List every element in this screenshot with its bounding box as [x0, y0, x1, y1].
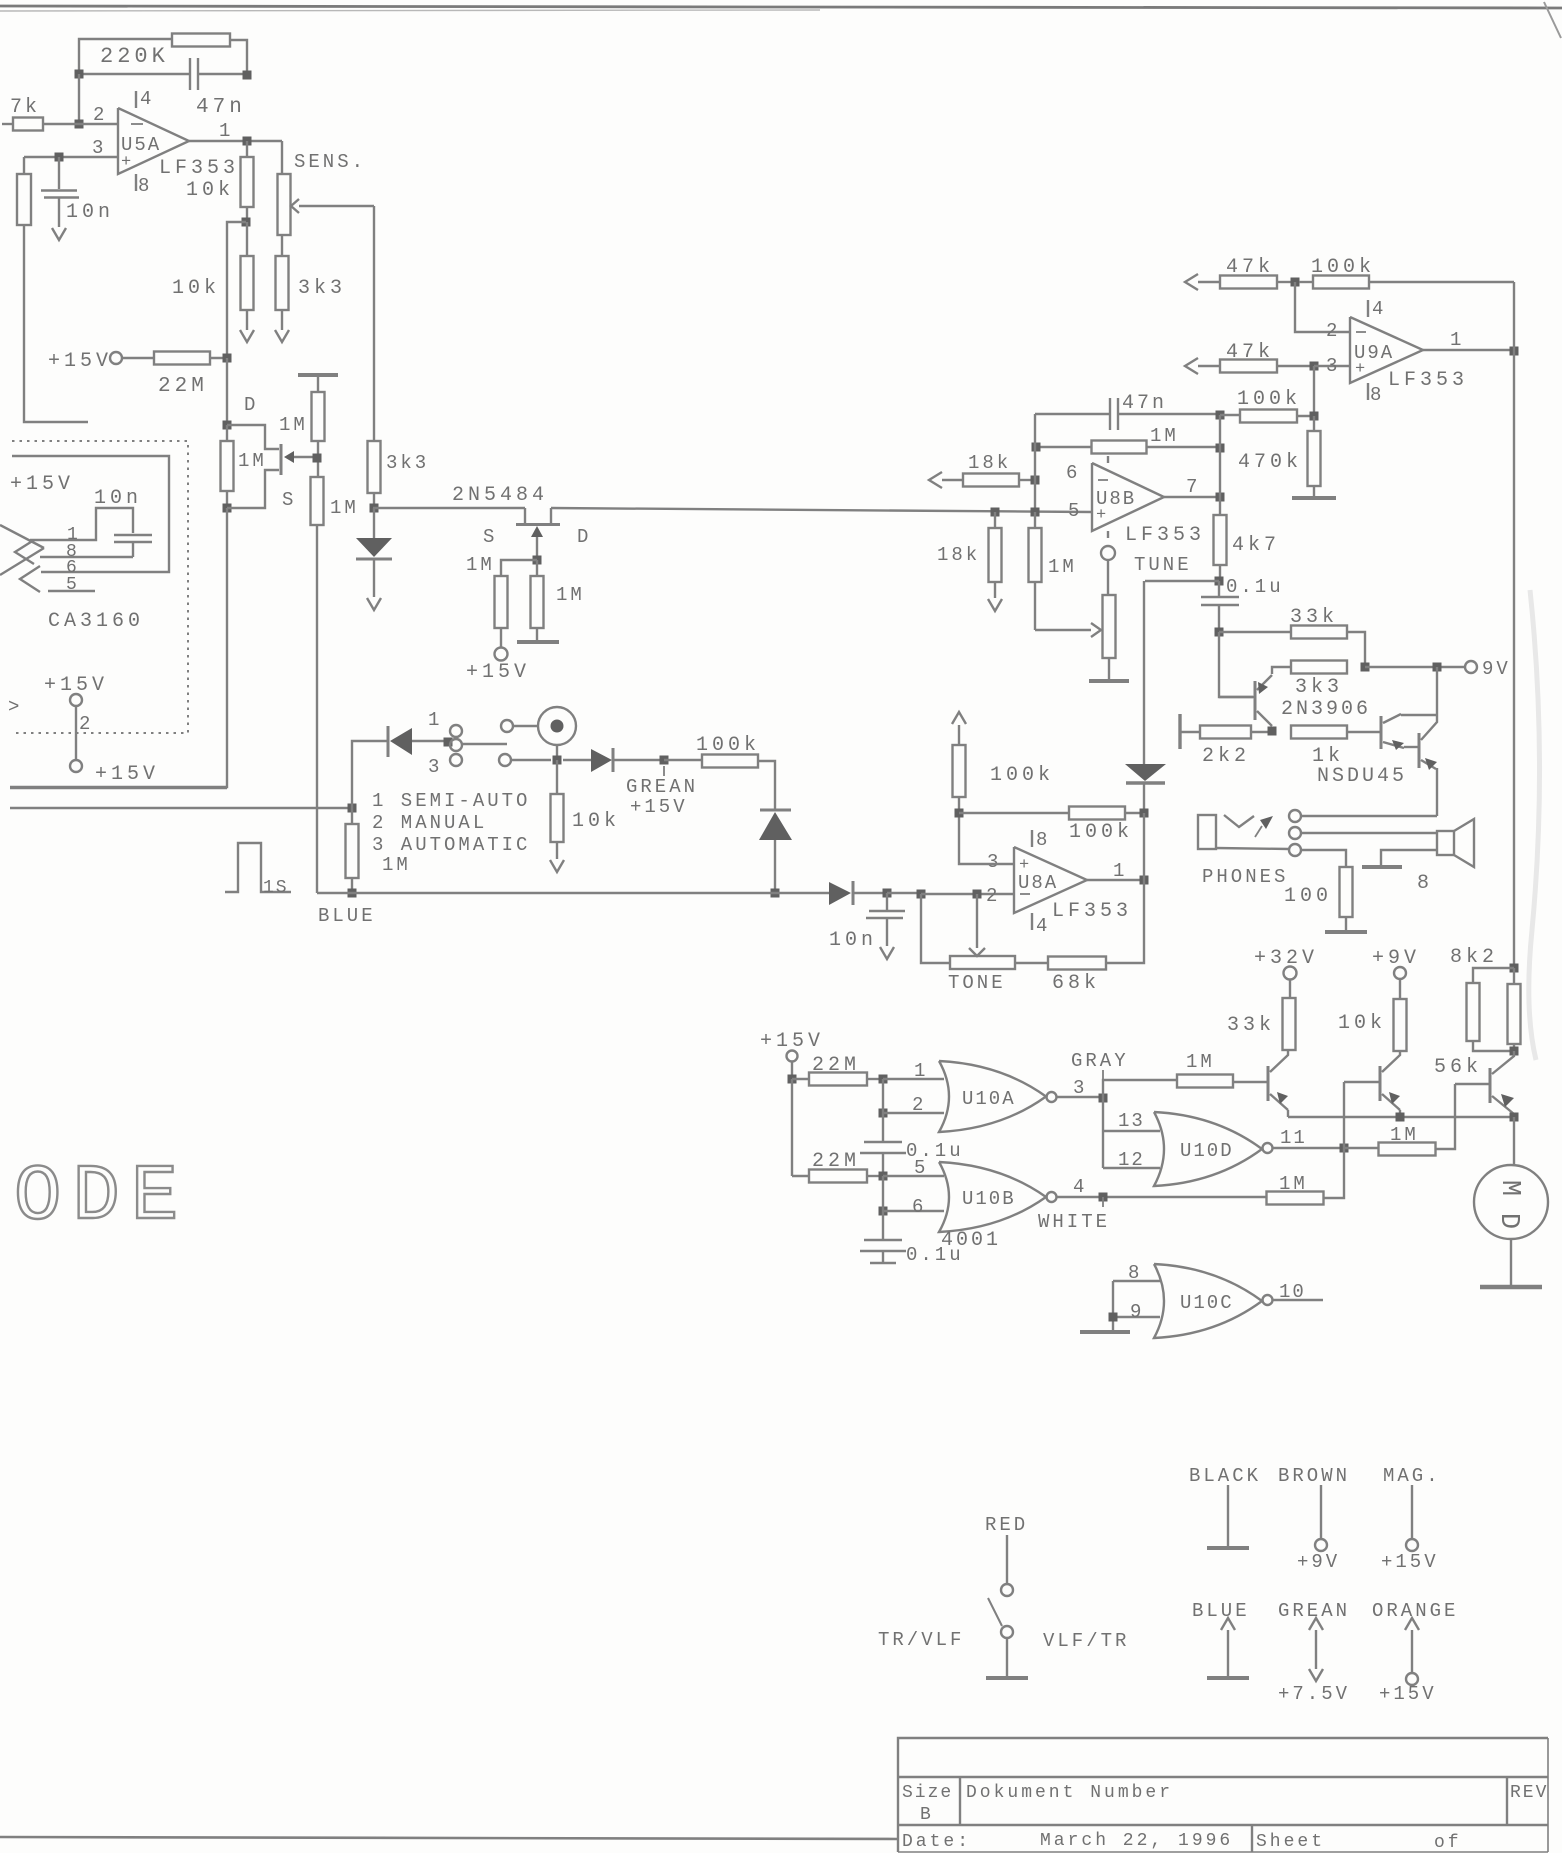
- op-amp U8A: [1014, 847, 1087, 913]
- node diode bus: [771, 889, 780, 898]
- svg-text:BLUE: BLUE: [318, 905, 376, 927]
- pin stub U8B top: [1107, 456, 1109, 463]
- wire left input down: [24, 225, 88, 422]
- wire switch feed: [10, 807, 352, 809]
- resistor 3k3 emitter: [1291, 661, 1347, 674]
- bar 2k2 input: [1178, 714, 1181, 749]
- svg-text:68k: 68k: [1052, 972, 1100, 995]
- node diode out: [1140, 809, 1149, 818]
- svg-text:1M: 1M: [279, 414, 308, 436]
- node 2N3906 collector: [1268, 727, 1277, 736]
- svg-text:March 22, 1996: March 22, 1996: [1040, 1831, 1233, 1851]
- resistor 100k U9A feedback: [1313, 276, 1369, 289]
- svg-text:1M: 1M: [466, 554, 495, 576]
- node grean: [660, 756, 669, 765]
- top right corner mark: [1544, 2, 1561, 38]
- svg-text:3 AUTOMATIC: 3 AUTOMATIC: [372, 834, 530, 856]
- node 22M: [223, 354, 232, 363]
- resistor 1M white: [1265, 1196, 1267, 1198]
- resistor 10k lower: [246, 222, 248, 256]
- wire U8A output: [1087, 879, 1144, 881]
- node pin2: [879, 1109, 888, 1118]
- switch contact 1: [450, 725, 462, 737]
- ground bar meter: [1480, 1285, 1542, 1290]
- wire 9V rail: [1365, 666, 1466, 668]
- svg-text:U10B: U10B: [962, 1188, 1016, 1210]
- resistor 470k: [1313, 416, 1315, 431]
- node 4k7 out: [1215, 577, 1224, 586]
- node drain: [223, 421, 232, 430]
- svg-text:2N3906: 2N3906: [1281, 698, 1371, 721]
- svg-text:+15V: +15V: [95, 763, 159, 786]
- svg-text:LF353: LF353: [1052, 900, 1132, 923]
- svg-text:CA3160: CA3160: [48, 610, 144, 633]
- resistor 47k bottom: [1198, 365, 1220, 367]
- terminal 9V: [1465, 661, 1477, 673]
- svg-text:3: 3: [428, 756, 439, 778]
- svg-text:1M: 1M: [382, 854, 411, 876]
- ground bar source: [517, 640, 559, 644]
- ground arrow 10n: [52, 228, 66, 240]
- node spine 8k2: [1510, 964, 1519, 973]
- wire U9A inverting: [1295, 282, 1350, 332]
- transistor NSDU45 first: [1380, 716, 1383, 749]
- svg-text:LF353: LF353: [1125, 524, 1205, 547]
- resistor 100k grean: [664, 759, 702, 761]
- speaker ground: [1381, 850, 1437, 866]
- resistor 47k top: [1198, 281, 1220, 283]
- jack PHONES body: [1198, 815, 1216, 849]
- resistor 2k2: [1180, 731, 1200, 733]
- solid box CA3160: [12, 456, 169, 572]
- wire pin3: [24, 156, 118, 158]
- wire tone left: [921, 894, 950, 963]
- resistor 1M gate lower: [311, 477, 324, 525]
- svg-text:Date:: Date:: [902, 1832, 971, 1852]
- gate U10D: [1154, 1112, 1262, 1186]
- svg-text:2: 2: [912, 1094, 923, 1116]
- wire U10D output: [1273, 1147, 1345, 1149]
- svg-text:9V: 9V: [1482, 658, 1511, 680]
- diode grean to bus: [760, 809, 791, 812]
- svg-text:1M: 1M: [556, 584, 585, 606]
- node pin1: [879, 1075, 888, 1084]
- wire right spine: [1513, 282, 1515, 351]
- speaker: [1437, 831, 1454, 855]
- svg-text:13: 13: [1118, 1110, 1145, 1132]
- wire blue bus: [317, 892, 775, 894]
- capacitor 10n bus: [886, 893, 888, 910]
- capacitor 10n input: [58, 157, 60, 189]
- wire SENS tap down: [373, 206, 375, 441]
- svg-text:12: 12: [1118, 1149, 1145, 1171]
- svg-text:1: 1: [914, 1060, 925, 1082]
- svg-text:D: D: [577, 526, 588, 548]
- gate U10B: [939, 1162, 1046, 1232]
- svg-text:100k: 100k: [1311, 256, 1375, 279]
- svg-text:1M: 1M: [1186, 1051, 1215, 1073]
- svg-text:SENS.: SENS.: [294, 151, 366, 173]
- TUNE wiper: [1035, 629, 1091, 631]
- ground arrow osc diode: [367, 598, 381, 610]
- wire U10C inputs: [1113, 1280, 1160, 1282]
- svg-text:2: 2: [79, 713, 90, 735]
- svg-text:2k2: 2k2: [1202, 745, 1250, 768]
- svg-text:+: +: [121, 153, 131, 172]
- node switch feed: [348, 804, 357, 813]
- svg-text:8k2: 8k2: [1450, 946, 1498, 969]
- svg-text:3k3: 3k3: [1295, 676, 1343, 699]
- svg-text:1 SEMI-AUTO: 1 SEMI-AUTO: [372, 790, 530, 812]
- svg-text:1S: 1S: [263, 878, 289, 898]
- transistor Q white: [1379, 1066, 1382, 1101]
- svg-text:1M: 1M: [1150, 425, 1179, 447]
- svg-text:8: 8: [1417, 872, 1429, 895]
- svg-text:4: 4: [1073, 1176, 1084, 1198]
- svg-text:22M: 22M: [812, 1054, 860, 1077]
- op-amp U9A: [1350, 317, 1423, 383]
- node U8A plus: [955, 809, 964, 818]
- svg-text:8: 8: [1128, 1262, 1139, 1284]
- ground bar U10C: [1080, 1330, 1130, 1334]
- svg-text:of: of: [1434, 1833, 1462, 1853]
- terminal +15V supply: [110, 352, 122, 364]
- svg-text:1: 1: [1450, 329, 1461, 351]
- scan crease right: [1529, 590, 1540, 1060]
- wire pin2: [883, 1112, 944, 1114]
- svg-text:470k: 470k: [1238, 451, 1302, 474]
- wire pin5: [883, 1175, 944, 1177]
- node 1M left: [1032, 443, 1041, 452]
- node pin6: [1031, 476, 1040, 485]
- node 33k: [1215, 628, 1224, 637]
- terminal TUNE: [1101, 546, 1115, 560]
- op-amp CA3160 partial: [0, 525, 44, 548]
- node 22M top: [788, 1075, 797, 1084]
- wire U8B left vertical: [1034, 414, 1036, 512]
- resistor 3k3 oscillator: [368, 441, 381, 493]
- wire ring to speaker: [1301, 832, 1437, 834]
- wire cap 47n left: [79, 73, 190, 75]
- svg-text:WHITE: WHITE: [1038, 1211, 1110, 1233]
- arrow signal 47k top: [1185, 274, 1198, 290]
- svg-text:8: 8: [138, 175, 149, 197]
- pin 8 stub U5A: [135, 174, 137, 191]
- svg-text:0.1u: 0.1u: [1226, 576, 1284, 598]
- meter motor: [1513, 1117, 1515, 1166]
- svg-text:10n: 10n: [94, 487, 142, 510]
- wire tip to driver: [1301, 815, 1437, 817]
- svg-text:100k: 100k: [990, 764, 1054, 787]
- node 10n bus: [853, 892, 887, 894]
- svg-text:47k: 47k: [1226, 256, 1274, 279]
- wire 22M column: [791, 1079, 793, 1176]
- svg-text:47n: 47n: [1122, 392, 1167, 415]
- wire bus to detector diode: [775, 892, 829, 894]
- potentiometer SENS: [278, 174, 291, 235]
- svg-text:D: D: [244, 394, 255, 416]
- resistor 3k3 under SENS: [281, 235, 283, 256]
- svg-text:+15V: +15V: [630, 796, 688, 818]
- resistor 22M gate B: [792, 1175, 809, 1177]
- gate U10C: [1154, 1264, 1262, 1338]
- svg-text:TUNE: TUNE: [1134, 554, 1192, 576]
- node U8A output: [1140, 876, 1149, 885]
- svg-text:S: S: [282, 489, 293, 511]
- svg-text:1M: 1M: [1390, 1124, 1419, 1146]
- wire 1M gray to base: [1232, 1081, 1234, 1083]
- svg-text:1M: 1M: [238, 450, 267, 472]
- resistor 33k base: [1219, 631, 1291, 633]
- wire U8A noninverting: [959, 813, 1014, 864]
- resistor 100k to fb node: [1220, 414, 1240, 416]
- resistor 100 phones: [1301, 850, 1346, 867]
- svg-text:10k: 10k: [186, 179, 234, 202]
- svg-text:18k: 18k: [968, 452, 1011, 474]
- svg-text:+15V: +15V: [10, 473, 74, 496]
- wire emitter bus: [1288, 1116, 1514, 1118]
- jack PHONES notch: [1224, 815, 1254, 827]
- capacitor 0.1u B: [882, 1211, 884, 1239]
- wire U8A inverting input: [921, 893, 1014, 895]
- svg-text:+7.5V: +7.5V: [1278, 1683, 1350, 1705]
- resistor 1M gray: [1103, 1080, 1177, 1098]
- svg-text:33k: 33k: [1290, 606, 1338, 629]
- svg-text:33k: 33k: [1227, 1014, 1275, 1037]
- transistor NSDU45 second: [1418, 733, 1421, 768]
- resistor 56k: [1508, 984, 1521, 1044]
- resistor 1M U8B feedback: [1040, 446, 1092, 448]
- svg-text:5: 5: [914, 1157, 925, 1179]
- svg-text:+15V: +15V: [48, 350, 112, 373]
- wire U10A output: [1057, 1096, 1104, 1098]
- op-amp U8B: [1092, 463, 1164, 531]
- wire U10B output: [1057, 1196, 1267, 1198]
- wire pin3 down: [1313, 366, 1315, 416]
- wire to mode diode: [352, 741, 388, 808]
- wire U5A output: [189, 140, 282, 142]
- svg-text:4: 4: [140, 88, 151, 110]
- node base white column: [1340, 1144, 1349, 1153]
- switch TR/VLF: [1006, 1535, 1008, 1584]
- wire inverting input: [78, 74, 80, 124]
- title block dividers: [959, 1777, 961, 1825]
- switch contact 3: [450, 754, 462, 766]
- svg-text:47n: 47n: [196, 96, 246, 119]
- svg-text:2: 2: [93, 104, 104, 126]
- svg-text:VLF/TR: VLF/TR: [1043, 1630, 1129, 1652]
- node U8B output: [1216, 493, 1225, 502]
- svg-text:1M: 1M: [330, 497, 359, 519]
- resistor 1M switch: [346, 824, 359, 878]
- svg-text:11: 11: [1280, 1127, 1307, 1149]
- pin stub U8B bottom: [1107, 531, 1109, 538]
- svg-text:100k: 100k: [1237, 388, 1301, 411]
- svg-text:10n: 10n: [829, 929, 877, 952]
- svg-text:+9V: +9V: [1297, 1551, 1340, 1573]
- pin 4 stub U9A: [1367, 300, 1369, 317]
- svg-text:9: 9: [1130, 1301, 1141, 1323]
- svg-text:2N5484: 2N5484: [452, 484, 548, 507]
- wire pin1: [883, 1078, 944, 1080]
- phones contact tip: [1289, 810, 1301, 822]
- resistor 1M gate upper: [317, 375, 319, 392]
- svg-text:U10C: U10C: [1180, 1292, 1234, 1314]
- diode bus detector: [829, 882, 851, 905]
- pin 4 stub U5A: [135, 91, 137, 108]
- svg-text:Sheet: Sheet: [1256, 1832, 1325, 1852]
- resistor 10k output divider: [246, 141, 248, 157]
- resistor 1M source left: [501, 560, 537, 576]
- node divider: [242, 218, 251, 227]
- node tone wiper: [973, 890, 982, 899]
- wire main oscillator line: [373, 507, 525, 509]
- svg-text:ORANGE: ORANGE: [1372, 1600, 1458, 1622]
- resistor 1M U10D: [1344, 1147, 1379, 1149]
- svg-text:B: B: [920, 1805, 933, 1825]
- svg-text:3: 3: [1326, 355, 1337, 377]
- svg-text:1: 1: [219, 120, 230, 142]
- svg-text:1M: 1M: [1279, 1173, 1308, 1195]
- ground arrow 10k lower: [240, 330, 254, 342]
- wire white base column: [1343, 1082, 1345, 1197]
- resistor 1M bias lower: [226, 425, 228, 441]
- resistor 100k U8A feedback: [959, 812, 1069, 814]
- svg-text:NSDU45: NSDU45: [1317, 765, 1407, 788]
- svg-text:1: 1: [428, 709, 439, 731]
- svg-text:2 MANUAL: 2 MANUAL: [372, 812, 487, 834]
- resistor left input: [23, 157, 25, 174]
- wire U9A output: [1423, 349, 1514, 351]
- capacitor 0.1u A: [882, 1079, 884, 1141]
- svg-text:Size: Size: [902, 1783, 953, 1803]
- resistor 22M gate A: [792, 1078, 809, 1080]
- svg-text:22M: 22M: [812, 1150, 860, 1173]
- wire base drive: [1219, 632, 1253, 697]
- node 1M blue: [348, 889, 357, 898]
- svg-text:BROWN: BROWN: [1278, 1465, 1350, 1487]
- diode osc to ground: [373, 508, 375, 538]
- diode threshold: [1143, 581, 1145, 764]
- svg-text:U8A: U8A: [1018, 872, 1058, 894]
- node pin6: [879, 1207, 888, 1216]
- op-amp U5A: [118, 108, 189, 174]
- ground bar TUNE: [1089, 679, 1129, 683]
- node 1M right: [1216, 444, 1225, 453]
- wire feedback top: [79, 39, 172, 74]
- terminal +15V source: [495, 648, 508, 661]
- svg-text:+15V: +15V: [1379, 1683, 1437, 1705]
- ground bar 100: [1325, 930, 1367, 934]
- svg-text:47k: 47k: [1226, 341, 1274, 364]
- svg-text:7: 7: [1186, 476, 1197, 498]
- svg-text:GREAN: GREAN: [626, 776, 698, 798]
- svg-text:LF353: LF353: [1388, 369, 1468, 392]
- wire 0.1u branch: [1145, 580, 1219, 582]
- ground arrow 3k3: [275, 330, 289, 342]
- svg-text:MAG.: MAG.: [1383, 1465, 1441, 1487]
- ground bar gate divider: [298, 373, 338, 377]
- pin 8 stub U9A: [1367, 383, 1369, 400]
- ground arrow 10k detector: [550, 860, 564, 872]
- svg-text:6: 6: [912, 1196, 923, 1218]
- TONE wiper arrow: [976, 894, 978, 948]
- svg-text:7k: 7k: [10, 96, 40, 119]
- pin 5 line CA3160: [48, 590, 95, 592]
- resistor 10k detector: [556, 760, 558, 794]
- transistor Q meter: [1489, 1068, 1492, 1103]
- svg-text:220K: 220K: [100, 44, 169, 69]
- node source: [223, 504, 232, 513]
- resistor 4k7: [1219, 497, 1221, 515]
- gate U10A: [939, 1061, 1046, 1132]
- svg-text:RED: RED: [985, 1514, 1028, 1536]
- svg-text:10: 10: [1279, 1281, 1306, 1303]
- node pin3 U9A: [1310, 362, 1319, 371]
- svg-text:GRAY: GRAY: [1071, 1050, 1129, 1072]
- jack sleeve node: [556, 745, 558, 760]
- svg-text:M: M: [1494, 1180, 1524, 1196]
- svg-text:3: 3: [987, 851, 998, 873]
- arrow signal 18k: [929, 472, 942, 488]
- ground arrow 18k: [988, 599, 1002, 611]
- svg-text:BLUE: BLUE: [1192, 1600, 1250, 1622]
- jack RCA: [538, 707, 576, 745]
- wire emitter 3k3: [1272, 667, 1291, 674]
- node bus meter: [1510, 1113, 1519, 1122]
- node 100k 470k: [1310, 412, 1319, 421]
- potentiometer TUNE: [1107, 560, 1109, 595]
- node gray: [1099, 1094, 1108, 1103]
- svg-text:LF353: LF353: [159, 157, 239, 180]
- jack terminal left: [501, 720, 513, 732]
- wire U9A noninverting: [1314, 365, 1350, 367]
- wire meter ground: [1510, 1239, 1512, 1286]
- node pin3 cap: [55, 153, 64, 162]
- wire U8B output: [1164, 496, 1216, 498]
- svg-text:3k3: 3k3: [298, 277, 346, 300]
- node 47k 100k: [1291, 278, 1300, 287]
- wire left column to bottom: [10, 508, 227, 787]
- wire 100k grean down: [758, 761, 775, 810]
- svg-text:6: 6: [1066, 462, 1077, 484]
- svg-text:+: +: [1355, 360, 1365, 379]
- wire 33k down: [1347, 632, 1365, 667]
- ground bar TR/VLF: [986, 1676, 1028, 1680]
- transistor 2N3906: [1254, 681, 1257, 720]
- svg-text:4k7: 4k7: [1232, 534, 1280, 557]
- pin 1 line CA3160: [30, 508, 133, 540]
- svg-text:1: 1: [1113, 860, 1124, 882]
- svg-text:10k: 10k: [1338, 1012, 1386, 1035]
- wire 7k to pin2: [43, 123, 118, 125]
- transistor JFET input: [280, 444, 283, 475]
- arrow signal 47k bottom: [1185, 358, 1198, 374]
- svg-text:TONE: TONE: [948, 972, 1006, 994]
- node oscillator: [370, 504, 379, 513]
- node feedback left: [75, 70, 84, 79]
- phones contact ring: [1289, 827, 1301, 839]
- svg-text:10k: 10k: [172, 277, 220, 300]
- resistor 10k collector: [1399, 979, 1401, 999]
- svg-text:2: 2: [1326, 320, 1337, 342]
- svg-text:Dokument Number: Dokument Number: [966, 1783, 1173, 1803]
- svg-text:S: S: [483, 526, 494, 548]
- wire right column U8B: [1219, 415, 1221, 497]
- node U9A output: [1510, 347, 1519, 356]
- node switch common: [444, 738, 453, 747]
- node white: [1099, 1193, 1108, 1202]
